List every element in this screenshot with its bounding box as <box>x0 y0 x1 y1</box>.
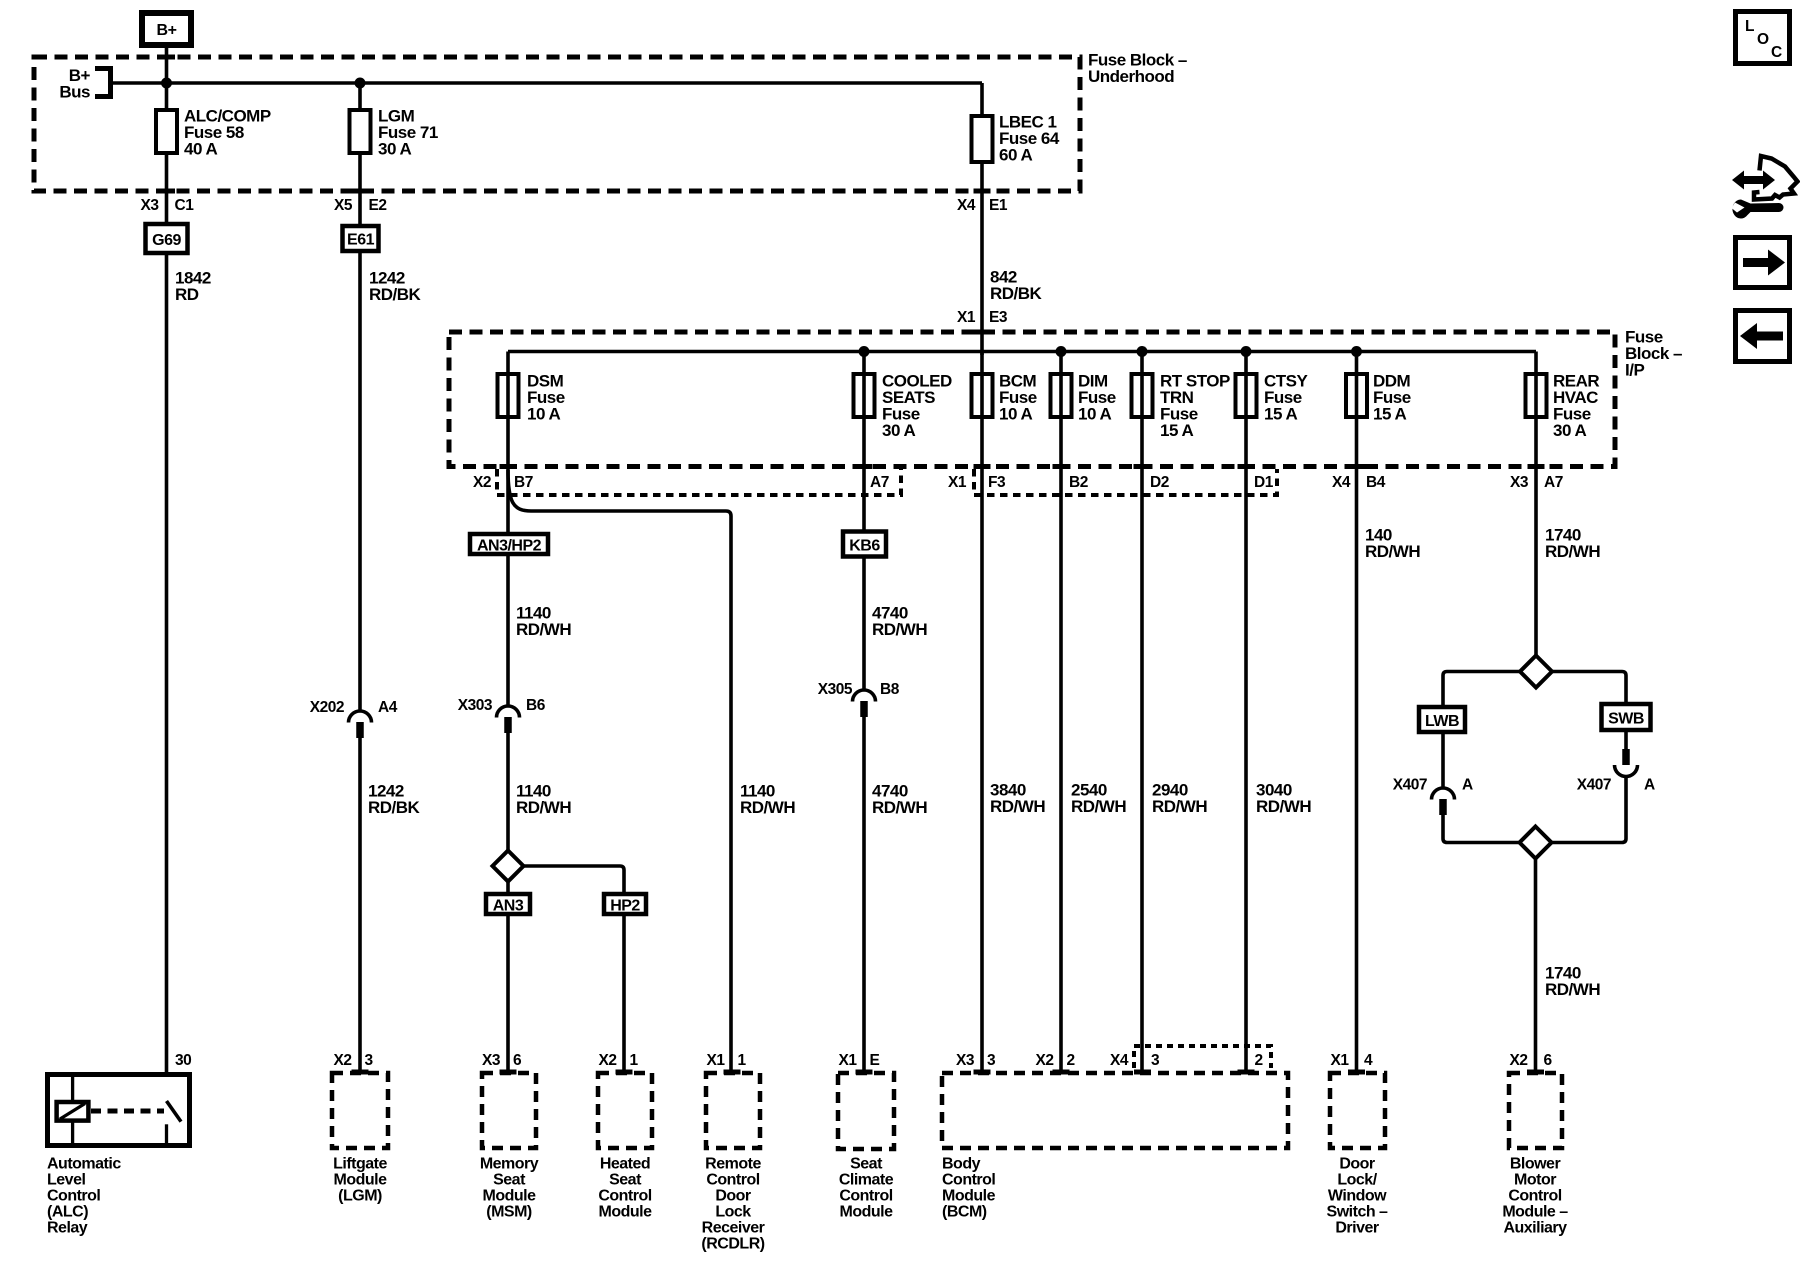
svg-text:A4: A4 <box>378 699 398 716</box>
svg-text:RD/WH: RD/WH <box>1256 797 1311 816</box>
svg-text:Module –: Module – <box>1502 1204 1568 1221</box>
connector LWB <box>1419 707 1465 732</box>
svg-text:Level: Level <box>47 1172 85 1189</box>
svg-text:3: 3 <box>1151 1052 1160 1069</box>
svg-text:Module: Module <box>599 1204 653 1221</box>
svg-text:A7: A7 <box>1544 474 1563 491</box>
svg-text:X4: X4 <box>957 197 976 214</box>
svg-text:X2: X2 <box>334 1052 352 1069</box>
svg-text:3: 3 <box>987 1052 996 1069</box>
svg-text:X1: X1 <box>948 474 967 491</box>
wire label 1242 RD/BK lower <box>368 782 421 818</box>
wire REAR HVAC drop to diamond <box>1534 352 1538 657</box>
wire G69 to ALC relay <box>165 253 169 1072</box>
svg-text:10 A: 10 A <box>527 405 561 424</box>
svg-text:RD/WH: RD/WH <box>1545 980 1600 999</box>
connector G69 <box>146 224 188 253</box>
svg-text:2: 2 <box>1255 1052 1263 1069</box>
svg-text:RD/WH: RD/WH <box>990 797 1045 816</box>
pin X3 3 bcm <box>956 1052 996 1069</box>
fuse block underhood label <box>1088 51 1187 87</box>
svg-text:Seat: Seat <box>493 1172 526 1189</box>
svg-text:LWB: LWB <box>1425 713 1459 730</box>
svg-text:E1: E1 <box>989 197 1008 214</box>
connector X407 A left inline <box>1393 777 1473 816</box>
pin tick X1 E3 at IP box top <box>974 330 991 335</box>
svg-text:1: 1 <box>738 1052 747 1069</box>
svg-text:RD/BK: RD/BK <box>368 798 421 817</box>
svg-text:X202: X202 <box>310 699 344 716</box>
label Blower Motor Control Module Auxiliary <box>1502 1156 1568 1237</box>
fuse block IP label <box>1625 328 1682 380</box>
module box Memory Seat <box>482 1073 536 1148</box>
connector X407 A right inline <box>1577 749 1655 794</box>
pin X4 E1 <box>957 197 1008 214</box>
svg-text:X2: X2 <box>599 1052 617 1069</box>
connector KB6 <box>843 532 886 557</box>
pin X1 1 rcdlr <box>707 1052 747 1069</box>
svg-text:Blower: Blower <box>1510 1156 1561 1173</box>
wire label 1140 RD/WH lower <box>516 782 571 818</box>
svg-text:KB6: KB6 <box>849 538 880 555</box>
svg-text:(ALC): (ALC) <box>47 1204 88 1221</box>
wire X305 to Seat Climate module <box>862 717 866 1073</box>
svg-text:30 A: 30 A <box>882 421 916 440</box>
svg-text:(MSM): (MSM) <box>486 1204 532 1221</box>
wire labels 3040 RD/WH <box>1256 781 1311 817</box>
wire B+ bus horizontal <box>111 81 983 85</box>
navigation left arrow box <box>1736 311 1790 362</box>
fuse DIM Fuse 10A <box>1051 372 1116 424</box>
svg-text:RD/WH: RD/WH <box>1152 797 1207 816</box>
connector E61 <box>343 226 379 251</box>
svg-text:E61: E61 <box>347 232 375 249</box>
svg-text:Motor: Motor <box>1514 1172 1556 1189</box>
wire label 4740 RD/WH lower <box>872 782 927 818</box>
wire BCM feed vertical through IP block down to BCM module <box>980 352 984 1074</box>
svg-text:Heated: Heated <box>600 1156 650 1173</box>
pin X3 C1 <box>141 197 195 214</box>
connector X305 B8 inline <box>818 681 900 717</box>
wire DSM drop to AN3/HP2 <box>506 352 510 533</box>
pin X1 F3 <box>948 474 1006 491</box>
svg-text:15 A: 15 A <box>1160 421 1194 440</box>
svg-text:Relay: Relay <box>47 1220 88 1237</box>
pin ticks at module box tops <box>352 1070 369 1075</box>
pin ticks at IP box bottom <box>500 464 517 469</box>
svg-text:2: 2 <box>1067 1052 1075 1069</box>
svg-text:10 A: 10 A <box>999 405 1033 424</box>
svg-text:Module: Module <box>483 1188 537 1205</box>
fuse LBEC 1 Fuse 64 <box>972 113 1060 165</box>
connector X303 B6 inline <box>458 697 546 733</box>
wire labels 2540 RD/WH <box>1071 781 1126 817</box>
wire LGM fuse to E61 <box>358 153 362 225</box>
relay switch blade <box>167 1101 182 1122</box>
wire HP2 to Heated Seat module <box>622 914 626 1073</box>
relay coil <box>57 1102 89 1121</box>
svg-text:4: 4 <box>1364 1052 1373 1069</box>
svg-text:6: 6 <box>513 1052 522 1069</box>
pin X1 E3 <box>957 309 1008 326</box>
svg-text:B7: B7 <box>514 474 533 491</box>
fuse DDM Fuse 15A <box>1346 372 1411 424</box>
svg-text:X2: X2 <box>1036 1052 1054 1069</box>
svg-text:Body: Body <box>942 1156 981 1173</box>
fuse block underhood dashed box <box>34 57 1080 191</box>
label Liftgate Module (LGM) <box>333 1156 387 1205</box>
svg-text:Liftgate: Liftgate <box>333 1156 387 1173</box>
svg-text:(BCM): (BCM) <box>942 1204 987 1221</box>
svg-text:B6: B6 <box>526 697 546 714</box>
node junction dot CTSY <box>1241 346 1252 357</box>
svg-text:E3: E3 <box>989 309 1008 326</box>
fuse block IP dashed box <box>449 332 1615 467</box>
wire label 842 RD/BK <box>990 268 1043 304</box>
svg-text:AN3/HP2: AN3/HP2 <box>477 538 542 555</box>
wire label 1740 RD/WH lower <box>1545 964 1600 1000</box>
svg-text:Control: Control <box>839 1188 892 1205</box>
module box Heated Seat <box>598 1073 652 1148</box>
svg-text:B2: B2 <box>1069 474 1088 491</box>
svg-text:Bus: Bus <box>59 83 90 102</box>
wire label 1740 RD/WH upper <box>1545 526 1600 562</box>
svg-text:RD/BK: RD/BK <box>990 284 1043 303</box>
fuse DSM Fuse 10A <box>498 372 565 424</box>
svg-text:RD/WH: RD/WH <box>516 620 571 639</box>
fuse CTSY Fuse 15A <box>1236 372 1309 424</box>
node junction dot DIM <box>1056 346 1067 357</box>
wire label 1842 RD <box>175 269 211 305</box>
LOC reference box <box>1736 12 1790 64</box>
B+ Bus label <box>59 66 90 102</box>
wire B+ box to bus <box>165 48 169 110</box>
module box Seat Climate <box>838 1073 894 1149</box>
wire E61 down to X202 <box>358 251 362 711</box>
svg-text:B+: B+ <box>157 22 177 39</box>
module box Door Lock Window Switch <box>1330 1073 1385 1148</box>
svg-text:X3: X3 <box>956 1052 975 1069</box>
fuse COOLED SEATS Fuse 30A <box>854 372 952 441</box>
wire label 1242 RD/BK <box>369 269 422 305</box>
pin X5 E2 <box>334 197 386 214</box>
wire label 1140 RD/WH rcdlr <box>740 782 795 818</box>
svg-text:Control: Control <box>598 1188 651 1205</box>
svg-text:C: C <box>1771 44 1782 61</box>
svg-text:RD/WH: RD/WH <box>872 798 927 817</box>
node junction dot COOLED SEATS <box>859 346 870 357</box>
wire SWB to X407 right <box>1624 730 1628 750</box>
svg-text:RD/WH: RD/WH <box>1071 797 1126 816</box>
svg-text:Seat: Seat <box>850 1156 883 1173</box>
label Automatic Level Control (ALC) Relay <box>47 1156 121 1237</box>
fuse ALC/COMP Fuse 58 <box>156 107 271 159</box>
svg-text:Switch –: Switch – <box>1327 1204 1389 1221</box>
svg-text:40 A: 40 A <box>184 140 218 159</box>
wire label 4740 RD/WH upper <box>872 604 927 640</box>
svg-text:Door: Door <box>715 1188 751 1205</box>
label Memory Seat Module (MSM) <box>480 1156 539 1221</box>
svg-text:Climate: Climate <box>839 1172 894 1189</box>
svg-text:L: L <box>1745 18 1754 35</box>
splice diamond AN3/HP2 <box>493 851 524 882</box>
svg-text:Module: Module <box>334 1172 388 1189</box>
relay dashed actuator line <box>91 1109 164 1114</box>
fuse LGM Fuse 71 <box>350 107 438 159</box>
svg-text:B4: B4 <box>1366 474 1386 491</box>
wire ALC fuse to G69 <box>165 153 169 222</box>
svg-text:Driver: Driver <box>1335 1220 1379 1237</box>
label Seat Climate Control Module <box>839 1156 894 1221</box>
pin X1 E seat climate <box>839 1052 880 1069</box>
wire label 1140 RD/WH upper <box>516 604 571 640</box>
wire LBEC fuse down to fuse block IP <box>980 162 984 355</box>
svg-text:G69: G69 <box>152 232 181 249</box>
wire X407 right to bottom diamond <box>1552 777 1627 843</box>
svg-text:C1: C1 <box>175 197 195 214</box>
svg-text:30 A: 30 A <box>1553 421 1587 440</box>
svg-text:Module: Module <box>840 1204 894 1221</box>
label Remote Control Door Lock Receiver (RCDLR) <box>701 1156 764 1253</box>
B+ Bus bracket <box>95 69 111 97</box>
svg-text:AN3: AN3 <box>493 898 524 915</box>
svg-text:60 A: 60 A <box>999 146 1033 165</box>
connector X202 A4 inline <box>310 699 398 738</box>
wire LBEC drop <box>980 83 984 116</box>
svg-text:Lock/: Lock/ <box>1337 1172 1377 1189</box>
pin X4 B4 <box>1332 474 1386 491</box>
wire bottom diamond to Blower module <box>1534 859 1538 1074</box>
wire RT STOP drop to BCM module <box>1140 352 1144 1074</box>
svg-text:A: A <box>1644 777 1655 794</box>
svg-text:E2: E2 <box>369 197 387 214</box>
wire DIM drop to BCM module <box>1059 352 1063 1074</box>
svg-text:RD: RD <box>175 285 199 304</box>
svg-text:Door: Door <box>1339 1156 1375 1173</box>
splice diamond top blower <box>1520 656 1552 688</box>
connector SWB <box>1602 704 1651 730</box>
svg-text:(LGM): (LGM) <box>338 1188 382 1205</box>
wire CTSY drop to BCM module <box>1244 352 1248 1074</box>
svg-text:RD/WH: RD/WH <box>516 798 571 817</box>
node junction dot DDM <box>1351 346 1362 357</box>
svg-text:X305: X305 <box>818 681 853 698</box>
svg-text:O: O <box>1757 31 1769 48</box>
label Door Lock Window Switch Driver <box>1327 1156 1389 1237</box>
svg-text:F3: F3 <box>988 474 1006 491</box>
svg-text:Seat: Seat <box>609 1172 642 1189</box>
svg-text:(RCDLR): (RCDLR) <box>701 1236 764 1253</box>
module box Liftgate <box>332 1073 388 1148</box>
wire diamond to LWB <box>1443 672 1520 707</box>
svg-text:X2: X2 <box>473 474 491 491</box>
pin X2 B7 <box>473 474 533 491</box>
svg-text:X1: X1 <box>707 1052 726 1069</box>
node junction dot LGM <box>355 78 366 89</box>
svg-text:X3: X3 <box>1510 474 1529 491</box>
svg-text:X3: X3 <box>482 1052 501 1069</box>
svg-text:Memory: Memory <box>480 1156 539 1173</box>
svg-text:Control: Control <box>47 1188 100 1205</box>
navigation right arrow box <box>1736 238 1790 288</box>
pin X2 2 bcm <box>1036 1052 1075 1069</box>
wire LGM drop <box>358 83 362 110</box>
wire label 140 RD/WH <box>1365 526 1420 562</box>
wire AN3 to Memory Seat module <box>506 914 510 1073</box>
connector AN3/HP2 <box>470 534 548 555</box>
svg-text:RD/WH: RD/WH <box>872 620 927 639</box>
wire LWB to X407 <box>1441 732 1445 788</box>
svg-text:Control: Control <box>942 1172 995 1189</box>
svg-text:RD/WH: RD/WH <box>1545 542 1600 561</box>
svg-text:B8: B8 <box>880 681 900 698</box>
node junction dot ALC <box>161 78 172 89</box>
wire labels 3840 RD/WH <box>990 781 1045 817</box>
svg-text:Control: Control <box>1508 1188 1561 1205</box>
svg-text:Automatic: Automatic <box>47 1156 121 1173</box>
svg-text:X1: X1 <box>1331 1052 1350 1069</box>
svg-text:X1: X1 <box>839 1052 858 1069</box>
svg-text:Receiver: Receiver <box>702 1220 765 1237</box>
connector dotted box X1 under IP <box>974 469 1277 495</box>
svg-text:15 A: 15 A <box>1373 405 1407 424</box>
svg-text:6: 6 <box>1544 1052 1553 1069</box>
splice diamond bottom blower <box>1520 827 1552 859</box>
pin ticks at underhood box bottom <box>158 189 175 194</box>
svg-text:HP2: HP2 <box>610 898 640 915</box>
pin X1 4 door lock <box>1331 1052 1373 1069</box>
svg-text:30 A: 30 A <box>378 140 412 159</box>
svg-text:Module: Module <box>942 1188 996 1205</box>
wire diamond branch to HP2 <box>524 866 625 893</box>
svg-text:30: 30 <box>175 1052 191 1069</box>
svg-text:RD/WH: RD/WH <box>1365 542 1420 561</box>
svg-text:D1: D1 <box>1254 474 1274 491</box>
svg-text:X5: X5 <box>334 197 353 214</box>
pin X4 3 bcm with dotted bracket <box>1110 1046 1271 1069</box>
svg-text:I/P: I/P <box>1625 361 1644 380</box>
svg-text:X2: X2 <box>1510 1052 1528 1069</box>
wire KB6 to X305 <box>862 557 866 691</box>
pin tick at underhood box top <box>158 55 175 60</box>
icon vehicle with double arrow and wrench <box>1732 156 1798 218</box>
B+ power feed box <box>142 13 191 45</box>
pin X3 6 msm <box>482 1052 522 1069</box>
wire DDM drop to Door Lock switch <box>1355 352 1359 1074</box>
svg-text:RD/BK: RD/BK <box>369 285 422 304</box>
svg-text:RD/WH: RD/WH <box>740 798 795 817</box>
wire AN3/HP2 to X303 <box>506 554 510 706</box>
pin X3 A7 <box>1510 474 1563 491</box>
fuse BCM Fuse 10A <box>972 372 1037 424</box>
svg-text:X303: X303 <box>458 697 493 714</box>
svg-text:X407: X407 <box>1577 777 1611 794</box>
svg-text:1: 1 <box>630 1052 639 1069</box>
wire labels 2940 RD/WH <box>1152 781 1207 817</box>
svg-text:15 A: 15 A <box>1264 405 1298 424</box>
label Heated Seat Control Module <box>598 1156 652 1221</box>
module box Blower Motor <box>1509 1073 1562 1148</box>
wire X407 left to bottom diamond <box>1443 815 1520 843</box>
module box RCDLR <box>706 1073 760 1148</box>
pin X2 3 liftgate <box>334 1052 374 1069</box>
svg-text:D2: D2 <box>1150 474 1169 491</box>
svg-text:10 A: 10 A <box>1078 405 1112 424</box>
svg-text:3: 3 <box>365 1052 374 1069</box>
connector AN3 <box>486 894 530 915</box>
svg-text:X1: X1 <box>957 309 976 326</box>
svg-text:Lock: Lock <box>715 1204 751 1221</box>
svg-text:SWB: SWB <box>1608 711 1644 728</box>
svg-text:Underhood: Underhood <box>1088 67 1174 86</box>
wire X303 to splice diamond <box>506 733 510 851</box>
pin X2 6 blower <box>1510 1052 1553 1069</box>
svg-text:A7: A7 <box>870 474 889 491</box>
svg-text:A: A <box>1462 777 1473 794</box>
svg-text:X4: X4 <box>1332 474 1351 491</box>
fuse RT STOP TRN Fuse 15A <box>1132 372 1231 441</box>
wire diamond to AN3 <box>506 882 510 894</box>
pin X2 1 heated <box>599 1052 639 1069</box>
svg-text:Remote: Remote <box>705 1156 761 1173</box>
label Body Control Module (BCM) <box>942 1156 996 1221</box>
connector dotted box X2 under IP <box>497 469 901 495</box>
fuse REAR HVAC Fuse 30A <box>1526 372 1600 441</box>
wire B7 branch curve to RCDLR <box>508 470 731 1073</box>
wire diamond to SWB <box>1552 672 1626 704</box>
wire IP internal bus <box>508 350 1536 354</box>
wire X202 to Liftgate module <box>358 738 362 1073</box>
relay internal left line <box>71 1072 74 1148</box>
node junction dot RT STOP TRN <box>1137 346 1148 357</box>
svg-text:X3: X3 <box>141 197 160 214</box>
wire COOLED SEATS drop to KB6 <box>862 352 866 531</box>
svg-text:X407: X407 <box>1393 777 1427 794</box>
svg-text:E: E <box>870 1052 880 1069</box>
svg-text:Auxiliary: Auxiliary <box>1503 1220 1567 1237</box>
connector HP2 <box>604 894 646 915</box>
ALC relay box <box>48 1072 190 1148</box>
module box BCM <box>942 1073 1288 1148</box>
svg-text:Window: Window <box>1328 1188 1387 1205</box>
svg-text:Control: Control <box>706 1172 759 1189</box>
svg-text:X4: X4 <box>1110 1052 1129 1069</box>
